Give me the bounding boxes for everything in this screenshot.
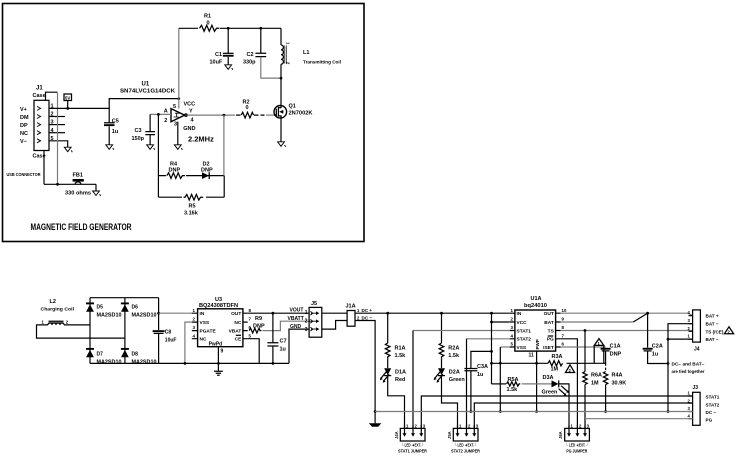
wire VSS/R3A horizontal <box>492 362 549 364</box>
node IN junction <box>157 312 160 315</box>
ground (C3) <box>147 145 155 150</box>
wire VCC vertical (R1 to U1) <box>178 28 180 108</box>
node input junction <box>157 113 160 116</box>
wire BAT diagonal <box>561 321 634 323</box>
svg-text:R1A: R1A <box>395 346 406 352</box>
svg-text:J3: J3 <box>693 385 699 391</box>
svg-text:11: 11 <box>529 353 535 359</box>
connector J1 <box>20 86 55 160</box>
resistor R4A <box>603 372 626 413</box>
svg-text:VOUT: VOUT <box>290 308 304 314</box>
svg-text:DP: DP <box>20 123 28 129</box>
svg-text:DNP: DNP <box>201 167 213 173</box>
svg-text:J5A: J5A <box>447 431 452 439</box>
wire feedback left vertical <box>157 114 159 197</box>
inductor L2 charging coil <box>41 299 75 325</box>
wire U1 output Y <box>188 114 235 116</box>
svg-text:A: A <box>164 109 168 115</box>
svg-text:J4: J4 <box>694 347 700 353</box>
ground (Q1) <box>278 142 286 147</box>
svg-text:330p: 330p <box>243 60 256 66</box>
svg-text:PWP: PWP <box>535 339 540 349</box>
svg-text:J1: J1 <box>36 86 43 92</box>
svg-text:Green: Green <box>449 377 466 383</box>
svg-text:bq24010: bq24010 <box>524 303 547 309</box>
resistor R3A <box>548 354 563 373</box>
svg-text:BAT: BAT <box>544 320 554 326</box>
svg-text:VSS: VSS <box>200 320 210 326</box>
svg-text:CE: CE <box>235 337 242 343</box>
svg-text:L2: L2 <box>50 299 56 305</box>
svg-text:PG: PG <box>547 337 554 343</box>
svg-text:└ LED ◄EXT. ┘: └ LED ◄EXT. ┘ <box>455 442 478 447</box>
svg-text:STAT1: STAT1 <box>517 328 532 334</box>
wire VCC vertical <box>490 312 493 384</box>
wire J1 pin4 stub <box>49 132 65 134</box>
ground (C1) <box>225 65 233 70</box>
warning triangle (R3A) <box>565 365 574 373</box>
resistor R5A <box>507 377 521 393</box>
capacitor C3 <box>132 114 156 144</box>
wire J5 pin3 to J1A pin2 <box>322 321 347 330</box>
svg-text:J4A: J4A <box>394 431 399 439</box>
resistor R4 <box>166 161 186 178</box>
svg-text:└ LED ◄EXT. ┘: └ LED ◄EXT. ┘ <box>566 442 589 447</box>
svg-text:GND: GND <box>183 126 195 132</box>
svg-text:C7: C7 <box>280 338 287 344</box>
wire TS net to J4 <box>561 330 693 332</box>
wire R5 row <box>158 196 224 198</box>
connector J4 <box>688 310 724 353</box>
svg-text:STAT1: STAT1 <box>706 395 720 400</box>
wire J1 case bottom down <box>43 151 45 185</box>
warning triangle (TS) <box>724 327 733 335</box>
wire J1 pin3 stub <box>49 124 65 126</box>
svg-text:1M: 1M <box>551 367 559 373</box>
svg-text:10uF: 10uF <box>165 338 177 344</box>
svg-text:R6A: R6A <box>591 373 602 379</box>
node VCC junction <box>177 97 180 100</box>
wire U3 PwPd stub <box>217 347 219 371</box>
svg-text:FB1: FB1 <box>73 173 83 179</box>
svg-text:J1A: J1A <box>346 304 356 310</box>
resistor R9 <box>249 316 265 333</box>
wire J1 pin2 stub <box>49 116 65 118</box>
svg-text:DC +: DC + <box>362 308 373 313</box>
wire PG down to jumper J6A <box>561 339 578 429</box>
connector J1A <box>346 304 373 327</box>
resistor R6A <box>583 331 602 429</box>
svg-text:USB CONNECTOR: USB CONNECTOR <box>7 172 41 177</box>
jumper J4A <box>394 424 427 454</box>
svg-text:Charging Coil: Charging Coil <box>41 307 75 312</box>
wire U1 input <box>150 113 171 115</box>
svg-text:C5: C5 <box>112 118 119 124</box>
svg-text:R5A: R5A <box>508 377 519 383</box>
svg-text:DNP: DNP <box>253 323 265 329</box>
wire gnd corner to J5 <box>289 329 309 363</box>
wire rail STAT2 <box>474 403 692 428</box>
border frame of magnetic field generator <box>3 4 365 242</box>
svg-text:3.16k: 3.16k <box>184 211 199 217</box>
resistor R1 <box>198 14 220 32</box>
wire ISET to C1A <box>561 346 606 348</box>
wire R9 to VBATT <box>263 321 310 330</box>
svg-text:D2A: D2A <box>449 370 460 376</box>
svg-text:DM: DM <box>20 115 29 121</box>
svg-text:DC− and BAT−: DC− and BAT− <box>672 362 706 367</box>
capacitor C3A <box>464 351 491 413</box>
wire R2 to Q1 gate <box>266 114 274 116</box>
svg-text:STAT2 JUMPER: STAT2 JUMPER <box>451 448 480 453</box>
svg-text:C1A: C1A <box>610 344 621 350</box>
svg-text:150p: 150p <box>132 136 145 142</box>
node junction case/FB1 <box>56 183 59 186</box>
ground (PwPd earth) <box>214 371 223 375</box>
svg-text:NC: NC <box>20 131 28 137</box>
wire D1A to jumper J4A pin1 <box>388 376 405 429</box>
svg-text:2N7002K: 2N7002K <box>289 111 313 117</box>
wire DC- down <box>355 321 375 412</box>
wire J1 pin1 V+ rail <box>49 99 179 109</box>
svg-text:VBATT: VBATT <box>288 316 304 322</box>
op-amp U1 inverter triangle <box>164 101 196 132</box>
svg-text:OUT: OUT <box>231 311 241 317</box>
svg-text:TS: TS <box>548 328 555 334</box>
svg-text:are tied together: are tied together <box>672 369 705 374</box>
LED D2A <box>434 359 466 383</box>
svg-text:1: 1 <box>305 310 308 316</box>
LED D3A <box>542 375 570 396</box>
svg-text:1u: 1u <box>112 129 118 135</box>
svg-text:Case: Case <box>33 93 46 99</box>
capacitor C8 <box>153 298 177 364</box>
wire U1A PWP pin11 down <box>536 351 538 411</box>
IC U3 BQ24308TDFN <box>192 297 252 354</box>
ground (FB1) <box>93 191 101 196</box>
svg-text:5: 5 <box>173 104 176 110</box>
wire R5A to D3A <box>522 383 552 385</box>
capacitor C2 <box>243 27 281 78</box>
svg-text:R4A: R4A <box>612 373 623 379</box>
ground (U1) <box>174 145 182 150</box>
svg-text:BAT +: BAT + <box>706 314 719 319</box>
wire Q1 drain up <box>280 78 282 106</box>
svg-text:MA2SD10: MA2SD10 <box>132 360 157 366</box>
svg-text:3: 3 <box>305 327 308 333</box>
wire R4/D2 row <box>158 175 224 177</box>
wire C1A DNP dashed <box>605 363 607 371</box>
svg-text:MA2SD10: MA2SD10 <box>97 360 122 366</box>
svg-text:U1: U1 <box>142 82 150 88</box>
connector J3 <box>688 385 720 425</box>
svg-text:1u: 1u <box>477 372 483 378</box>
wire case vertical to FB1 <box>57 92 59 184</box>
svg-text:└ LED ◄EXT. ┘: └ LED ◄EXT. ┘ <box>402 442 425 447</box>
svg-text:MA2SD10: MA2SD10 <box>132 313 157 319</box>
svg-text:STAT2: STAT2 <box>517 337 532 343</box>
svg-text:VCC: VCC <box>184 101 196 107</box>
svg-text:DC −: DC − <box>706 410 717 415</box>
wire DC+ rail to U1A <box>355 312 510 314</box>
wire VSS net <box>500 346 510 348</box>
wire J4 BAT- vertical <box>668 324 693 412</box>
resistor R2A <box>439 312 460 359</box>
LED D1A <box>380 359 406 383</box>
svg-text:1.5k: 1.5k <box>395 353 407 359</box>
wire bridge left vertical <box>89 298 91 364</box>
node output junction <box>223 114 226 117</box>
svg-text:VSS: VSS <box>517 345 527 351</box>
svg-text:30.9K: 30.9K <box>612 381 627 387</box>
wire J1 pin5 to ground <box>49 141 68 147</box>
svg-text:3: 3 <box>174 121 177 127</box>
svg-text:IN: IN <box>200 311 205 317</box>
svg-text:SN74LVC1G14DCK: SN74LVC1G14DCK <box>120 89 175 95</box>
svg-text:C2A: C2A <box>652 344 663 350</box>
resistor R2 <box>236 99 265 118</box>
wire bridge bottom rail <box>90 362 289 364</box>
svg-text:V−: V− <box>20 139 27 145</box>
wire STAT1 net <box>413 330 510 332</box>
ground (DC- earth) <box>369 410 382 427</box>
svg-text:Green: Green <box>542 390 559 396</box>
svg-text:PGATE: PGATE <box>200 329 217 335</box>
resistor R5 <box>182 194 206 216</box>
capacitor C1A <box>601 344 622 364</box>
wire STAT2 net <box>467 338 510 340</box>
capacitor C7 <box>267 312 286 365</box>
wire rail PG <box>585 418 693 420</box>
wire R5A row <box>492 383 507 385</box>
svg-text:C3A: C3A <box>477 364 488 370</box>
wire Q1 source to ground <box>280 118 282 142</box>
svg-text:10uF: 10uF <box>210 60 223 66</box>
svg-text:1u: 1u <box>652 351 658 357</box>
wire FB1 row <box>44 183 96 185</box>
svg-text:D7: D7 <box>97 352 104 358</box>
svg-text:1.5k: 1.5k <box>448 353 460 359</box>
wire U3 CE down <box>248 339 260 364</box>
wire feedback right vertical <box>223 115 225 176</box>
svg-text:0: 0 <box>207 20 210 26</box>
capacitor C1 <box>210 27 234 66</box>
jumper J6A <box>558 424 589 454</box>
svg-text:330 ohms: 330 ohms <box>65 191 91 197</box>
diode D8 <box>121 349 157 366</box>
svg-text:GND: GND <box>290 324 302 330</box>
capacitor C2A <box>643 313 670 365</box>
svg-text:Y: Y <box>189 109 193 115</box>
node L1 bottom junction <box>280 77 283 80</box>
wire L2 pin1 loop to bridge mid <box>37 325 125 338</box>
ferrite bead FB1 <box>73 179 84 182</box>
svg-text:R2A: R2A <box>448 346 459 352</box>
capacitor C5 <box>104 108 119 144</box>
svg-text:1.5k: 1.5k <box>507 387 519 393</box>
diode D5 <box>86 303 122 318</box>
svg-text:Q1: Q1 <box>289 103 296 109</box>
svg-text:D5: D5 <box>97 305 104 311</box>
svg-text:VCC: VCC <box>517 320 528 326</box>
svg-text:VBAT: VBAT <box>229 329 242 335</box>
svg-text:J6A: J6A <box>558 431 563 439</box>
svg-text:V+: V+ <box>20 107 27 113</box>
svg-text:IN: IN <box>517 311 522 317</box>
svg-text:ISET: ISET <box>543 345 554 351</box>
svg-text:DNP: DNP <box>169 167 181 173</box>
wire J1 case top loop <box>46 92 58 100</box>
diode D6 <box>121 303 157 318</box>
svg-text:J5: J5 <box>311 301 317 307</box>
svg-text:2.2MHz: 2.2MHz <box>188 134 214 143</box>
net symbol 5V <box>64 94 72 110</box>
wire FB1 to ground <box>95 184 97 191</box>
svg-text:1M: 1M <box>591 381 599 387</box>
svg-text:PG JUMPER: PG JUMPER <box>566 448 587 453</box>
diode D2 <box>201 161 213 179</box>
svg-text:C2: C2 <box>247 52 254 58</box>
wire bridge middle vertical <box>124 298 126 364</box>
wire U1 gnd pin <box>177 122 179 145</box>
diode D7 <box>86 349 122 366</box>
wire bridge top <box>90 297 159 299</box>
IC U1A bq24010 <box>510 296 567 358</box>
wire U3 OUT to J5 <box>248 312 309 314</box>
svg-text:MA2SD10: MA2SD10 <box>97 313 122 319</box>
resistor R1A <box>385 312 406 359</box>
wire bridge to U3 IN <box>159 312 192 314</box>
svg-text:1u: 1u <box>280 347 286 353</box>
wire L2 pin2 to bridge left <box>64 324 90 326</box>
svg-text:D8: D8 <box>132 352 139 358</box>
svg-text:MAGNETIC FIELD GENERATOR: MAGNETIC FIELD GENERATOR <box>31 222 132 232</box>
svg-text:STAT1 JUMPER: STAT1 JUMPER <box>398 448 427 453</box>
wire U1A OUT rail to J4 <box>561 313 693 316</box>
svg-text:C3: C3 <box>135 128 142 134</box>
svg-text:C8: C8 <box>165 330 172 336</box>
wire VCC jog to U1A <box>492 321 510 323</box>
svg-text:U1A: U1A <box>531 296 542 302</box>
svg-text:BAT −: BAT − <box>706 322 719 327</box>
svg-text:BAT −: BAT − <box>706 337 719 342</box>
wire rail DC- <box>375 411 692 413</box>
svg-text:TS (/CE): TS (/CE) <box>706 329 724 334</box>
wire D2A to jumper J5A pin1 <box>442 376 458 429</box>
svg-text:2: 2 <box>164 118 167 124</box>
svg-text:PwPd: PwPd <box>209 341 223 347</box>
svg-text:0: 0 <box>246 105 249 111</box>
svg-text:Transmitting Coil: Transmitting Coil <box>303 59 341 64</box>
svg-text:D1A: D1A <box>395 370 406 376</box>
wire rail STAT1 <box>421 396 692 428</box>
svg-text:DNP: DNP <box>610 351 622 357</box>
wire top rail R1 <box>179 27 281 29</box>
svg-text:Red: Red <box>395 377 405 383</box>
svg-text:OUT: OUT <box>544 311 554 317</box>
svg-text:NC: NC <box>200 337 207 343</box>
warning triangle (ISET) <box>594 339 604 364</box>
svg-text:U3: U3 <box>215 297 222 303</box>
svg-text:R5: R5 <box>189 204 196 210</box>
svg-text:C1: C1 <box>215 52 222 58</box>
svg-text:D3A: D3A <box>543 375 554 381</box>
svg-text:R1: R1 <box>204 14 211 20</box>
ground (C5) <box>106 145 114 150</box>
transistor Q1 <box>274 103 313 118</box>
svg-text:L1: L1 <box>303 50 309 56</box>
wire D3A to jumper J6A pin1 <box>559 384 569 429</box>
jumper J5A <box>447 424 480 454</box>
svg-text:D6: D6 <box>132 305 139 311</box>
svg-text:R9: R9 <box>255 316 262 322</box>
ground (J1 pin5) <box>64 147 72 152</box>
svg-text:STAT2: STAT2 <box>706 403 720 408</box>
svg-text:R3A: R3A <box>552 354 563 360</box>
svg-text:9: 9 <box>221 348 224 354</box>
wire U3 VSS to bottom rail <box>185 322 192 363</box>
wire J5 pin1 to J1A <box>322 312 347 314</box>
svg-text:2: 2 <box>305 319 308 325</box>
connector J5 <box>288 301 322 337</box>
svg-text:BQ24308TDFN: BQ24308TDFN <box>199 303 238 309</box>
svg-text:PG: PG <box>706 418 713 423</box>
svg-text:5V: 5V <box>65 96 70 101</box>
inductor L1 <box>281 28 341 78</box>
svg-text:10: 10 <box>562 308 567 313</box>
svg-text:NC: NC <box>234 320 241 326</box>
